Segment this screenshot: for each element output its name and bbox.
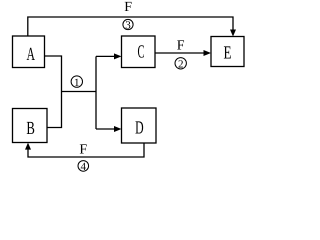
wire into C xyxy=(96,53,122,59)
svg-text:D: D xyxy=(135,119,144,139)
box D xyxy=(122,108,157,143)
svg-text:F: F xyxy=(177,39,185,54)
svg-text:B: B xyxy=(26,119,35,139)
wire C to E xyxy=(155,50,211,56)
svg-text:F: F xyxy=(79,143,87,158)
svg-text:2: 2 xyxy=(178,59,184,71)
wire D bottom to B bottom feedback xyxy=(25,143,144,157)
wire A top to E top xyxy=(28,17,236,37)
box E xyxy=(211,37,244,67)
svg-text:4: 4 xyxy=(81,161,87,173)
wire A right down to B right xyxy=(45,56,62,128)
svg-text:A: A xyxy=(27,45,36,65)
wire crossbar node xyxy=(62,91,97,93)
svg-text:3: 3 xyxy=(125,20,131,32)
svg-text:C: C xyxy=(138,43,145,63)
wire into D xyxy=(96,126,122,132)
label circled 3 xyxy=(123,19,133,31)
svg-text:E: E xyxy=(224,44,232,64)
label circled 2 xyxy=(175,58,186,71)
svg-text:F: F xyxy=(124,0,132,15)
box A xyxy=(13,36,45,68)
svg-text:1: 1 xyxy=(74,77,80,89)
wire split vertical xyxy=(95,56,97,129)
label circled 1 xyxy=(71,76,82,89)
label circled 4 xyxy=(78,161,89,173)
box B xyxy=(13,109,48,143)
box C xyxy=(122,36,156,68)
